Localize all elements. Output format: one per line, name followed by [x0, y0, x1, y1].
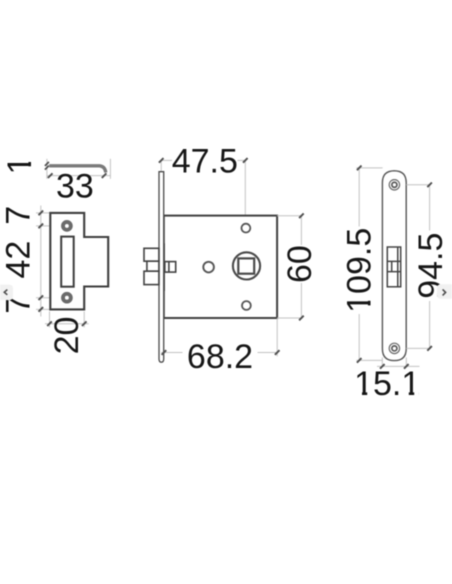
dim 109.5 line lower segment [358, 314, 360, 360]
lock body case [164, 216, 277, 318]
dim 15.1 extension line right [405, 358, 407, 367]
dim 15.1 dimension line [377, 365, 420, 367]
dim 109.5 tick top [357, 166, 362, 171]
dim 94.5 top extension line [406, 184, 431, 186]
dim 20 dimension line [45, 323, 89, 325]
dim 94.5 line upper segment [429, 185, 431, 231]
dim 33 extension line left [46, 159, 48, 179]
dim 68.2 tick left [162, 350, 167, 355]
dim 47.5 extension line right [244, 160, 246, 215]
lock faceplate side bar [159, 172, 164, 363]
lock case edge behind faceplate [163, 243, 165, 291]
dim 7 bottom extension line (plate bottom) [36, 308, 50, 310]
svg-text:60: 60 [281, 245, 319, 283]
svg-text:7: 7 [0, 206, 37, 225]
dim 15.1 tick right [404, 364, 409, 369]
dim 60 extension line bottom [277, 317, 303, 319]
carousel prev button [0, 285, 13, 301]
dim 1 tick lower [45, 166, 49, 170]
dim 68.2 line right segment [258, 352, 278, 354]
tick at top hole [39, 224, 44, 229]
dim 15.1 tick left [380, 364, 385, 369]
latch bolt head bottom block [144, 271, 159, 284]
latch bolt tail inside case [165, 262, 176, 273]
body screw hole top [242, 224, 251, 233]
strike plate latch slot [61, 237, 73, 287]
latch bolt tail divider [168, 262, 170, 273]
dim 20 tick left [47, 321, 52, 326]
glyph correction: hide serif feet of 1s in 15.1 [356, 391, 362, 396]
strike plate screw hole bottom [63, 294, 71, 302]
faceplate latch cutout lower divider [387, 271, 400, 273]
faceplate screw hole top outer [389, 180, 399, 190]
body screw hole bottom [242, 301, 251, 310]
dim 109.5 tick bottom [357, 358, 362, 363]
dim 47.5 line right stub [238, 159, 246, 161]
dim 68.2 tick right [275, 350, 280, 355]
dim 109.5 line upper segment [358, 168, 360, 227]
carousel next button [437, 284, 452, 298]
faceplate front view plate [382, 171, 406, 361]
spindle small hole [203, 262, 214, 273]
dim 109.5 bottom extension line [356, 359, 382, 361]
square spindle hole [238, 258, 254, 273]
follower circle [233, 252, 260, 279]
dim 7/42/7 vertical dimension line [40, 206, 42, 317]
latch bolt head middle block [147, 261, 159, 271]
dim 1 tick upper [45, 162, 49, 166]
strike plate screw hole top [63, 222, 71, 230]
faceplate latch cutout upper divider [387, 260, 400, 262]
glyph correction: hide serif foot of 1 in 109.5 [367, 294, 372, 300]
dim 60 line lower segment [300, 283, 302, 318]
carousel next chevron [443, 289, 446, 295]
dim 33 extension line right [109, 159, 111, 179]
carousel prev chevron [4, 290, 7, 295]
svg-text:15.1: 15.1 [354, 365, 420, 403]
faceplate screw hole top inner [392, 182, 397, 187]
faceplate latch cutout outer [387, 247, 400, 287]
dim 47.5 line left stub [161, 159, 172, 161]
dim 68.2 extension line right [276, 319, 278, 357]
dim 47.5 tick right [243, 158, 248, 163]
strike plate side view bar (33 wide, 1 thick) [49, 166, 106, 173]
faceplate screw hole bottom outer [389, 343, 399, 353]
dim 68.2 line left segment [161, 352, 182, 354]
dim 7 top extension line (plate top) [36, 212, 50, 214]
dim 94.5 line lower segment [429, 301, 431, 348]
svg-text:42: 42 [0, 241, 37, 279]
dim 20 tick right [82, 321, 87, 326]
svg-text:68.2: 68.2 [187, 338, 253, 376]
faceplate screw hole bottom inner [392, 346, 397, 351]
dim 60 tick top [299, 213, 304, 218]
dim 33 tick right [102, 173, 107, 178]
dim 60 extension line top [277, 215, 303, 217]
dim extension line bottom hole center [36, 297, 62, 299]
dim 60 tick bottom [299, 316, 304, 321]
dim 15.1 extension line left [381, 358, 383, 367]
glyph correction: hide serif foot of rotated 1 [27, 155, 33, 162]
dim 20 extension line left [49, 311, 51, 327]
dim 60 line upper segment [300, 216, 302, 245]
svg-text:20: 20 [48, 317, 86, 355]
dim 20 extension line right [83, 311, 85, 327]
dim extension line top hole center [36, 225, 62, 227]
strike plate front view outline [50, 213, 108, 310]
dim 47.5 extension line left [160, 160, 162, 171]
tick at plate top [39, 211, 44, 216]
tick at plate bottom [39, 307, 44, 312]
faceplate latch cutout middle vertical [391, 261, 393, 271]
faceplate latch cutout right inner line [397, 247, 399, 287]
svg-text:33: 33 [56, 168, 94, 206]
svg-text:109.5: 109.5 [340, 228, 378, 313]
tick at bottom hole [39, 295, 44, 300]
dim 94.5 tick top [427, 183, 432, 188]
svg-text:47.5: 47.5 [172, 143, 238, 181]
dim 47.5 tick left [159, 158, 164, 163]
svg-text:1: 1 [1, 156, 39, 175]
dim 109.5 top extension line [356, 167, 382, 169]
dim 94.5 tick bottom [427, 346, 432, 351]
latch bolt head top block [144, 248, 159, 261]
dim 33 dimension line [47, 175, 111, 177]
dim 33 tick left [48, 173, 53, 178]
dim 94.5 bottom extension line [406, 347, 431, 349]
